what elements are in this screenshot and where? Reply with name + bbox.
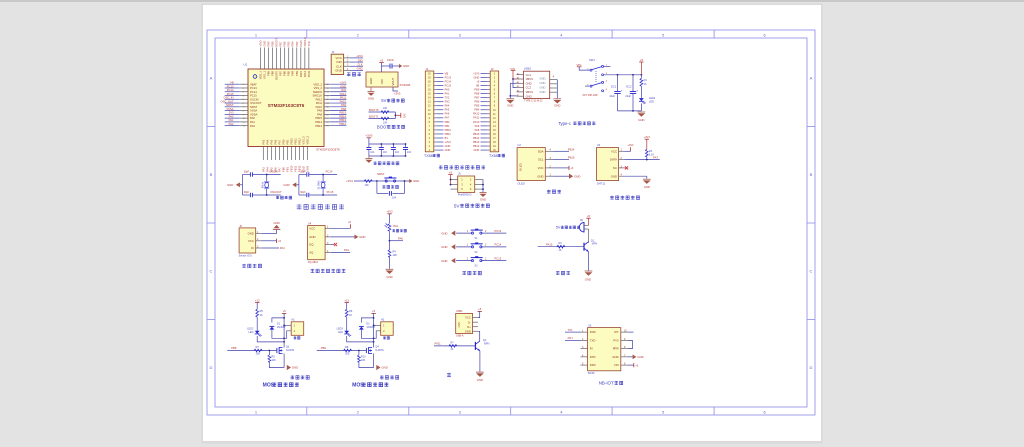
svg-text:PA6: PA6	[398, 236, 403, 240]
wire	[621, 331, 628, 333]
svg-text:LED1: LED1	[649, 96, 656, 100]
svg-text:OLED: OLED	[517, 181, 524, 185]
wire	[487, 121, 490, 123]
svg-text:PA11: PA11	[316, 101, 323, 105]
wire	[298, 175, 300, 196]
svg-text:GND: GND	[574, 174, 580, 178]
junction	[283, 337, 285, 339]
caption MCU minimum system	[297, 204, 302, 209]
wire	[394, 112, 396, 119]
wire	[437, 77, 443, 79]
wire	[354, 180, 409, 182]
svg-text:+12: +12	[255, 298, 260, 302]
wire	[487, 73, 490, 75]
svg-text:PB0: PB0	[445, 120, 450, 124]
svg-text:PC14: PC14	[326, 170, 333, 174]
wire	[487, 85, 490, 87]
junction	[380, 155, 382, 157]
svg-text:GND: GND	[507, 103, 513, 107]
svg-text:LED: LED	[338, 331, 343, 334]
svg-text:VCC: VCC	[538, 166, 544, 170]
svg-text:PA8: PA8	[475, 128, 480, 132]
svg-text:PC14: PC14	[227, 88, 234, 92]
junction	[450, 179, 452, 181]
wire	[288, 48, 290, 70]
svg-text:SDA: SDA	[538, 149, 544, 153]
wire	[225, 83, 240, 85]
wire	[330, 91, 346, 93]
wire	[437, 145, 443, 147]
svg-text:PA0: PA0	[250, 116, 255, 120]
ground	[638, 111, 646, 113]
svg-text:VB: VB	[476, 83, 480, 87]
svg-text:N-MOS: N-MOS	[286, 349, 295, 352]
wire	[284, 324, 287, 326]
wire	[481, 232, 506, 234]
svg-text:PB1: PB1	[285, 167, 289, 172]
wire	[268, 48, 270, 70]
wire	[487, 125, 490, 127]
wire	[374, 331, 377, 339]
sheet page shadow	[202, 4, 823, 444]
power +5	[371, 312, 375, 314]
wire	[239, 83, 248, 85]
svg-text:5V: 5V	[454, 203, 461, 208]
wire	[325, 252, 331, 254]
wire	[434, 113, 437, 115]
wire	[481, 109, 488, 111]
svg-text:VSSA: VSSA	[250, 109, 257, 113]
svg-text:PB10: PB10	[445, 128, 452, 132]
svg-text:+3V3: +3V3	[365, 134, 372, 138]
wire	[389, 214, 391, 223]
wire	[628, 364, 634, 366]
wire	[405, 144, 407, 147]
wire	[473, 317, 479, 319]
svg-text:VDD_2: VDD_2	[313, 82, 322, 86]
svg-text:PA9: PA9	[341, 103, 346, 107]
svg-text:GND: GND	[480, 198, 486, 202]
wire	[585, 85, 589, 87]
svg-text:PB7: PB7	[279, 70, 283, 75]
svg-text:10K: 10K	[365, 184, 370, 187]
wire	[344, 65, 350, 67]
wire	[487, 81, 490, 83]
wire	[437, 81, 443, 83]
wire	[487, 149, 490, 151]
svg-text:GND: GND	[359, 235, 365, 239]
wire	[377, 192, 389, 194]
svg-text:CLK: CLK	[357, 63, 362, 67]
power +5	[639, 61, 643, 63]
transistor Q1 NPN	[583, 243, 585, 251]
wire	[239, 98, 248, 100]
wire	[368, 144, 370, 147]
resistor R6 1K	[345, 309, 348, 317]
wire	[330, 102, 346, 104]
svg-text:104: 104	[395, 151, 400, 154]
svg-text:GND: GND	[368, 97, 374, 101]
caption crystal circuit	[276, 196, 279, 199]
IC U2 OLED	[517, 148, 545, 181]
wire	[324, 91, 330, 93]
wire	[282, 147, 284, 161]
wire	[324, 125, 330, 127]
wire	[632, 94, 634, 111]
caption reset circuit	[382, 185, 385, 188]
ground	[287, 365, 291, 370]
svg-text:C: C	[810, 269, 813, 274]
junction	[373, 337, 375, 339]
wire	[376, 324, 381, 326]
svg-text:PB12: PB12	[298, 138, 302, 145]
svg-text:VB: VB	[230, 81, 234, 85]
wire	[487, 137, 490, 139]
junction	[482, 188, 484, 190]
wire	[390, 240, 404, 242]
svg-text:LED: LED	[249, 331, 254, 334]
svg-text:PA5: PA5	[269, 139, 273, 144]
wire	[324, 102, 330, 104]
wire	[330, 113, 346, 115]
wire	[434, 129, 437, 131]
svg-text:PB7: PB7	[474, 96, 479, 100]
wire	[628, 356, 633, 358]
junction	[404, 180, 406, 182]
wire	[262, 147, 264, 161]
svg-text:STM32F103C8T6: STM32F103C8T6	[268, 103, 305, 108]
wire	[317, 350, 367, 352]
wire	[239, 110, 248, 112]
svg-text:PB9: PB9	[321, 346, 327, 350]
wire	[456, 232, 472, 234]
wire	[434, 141, 437, 143]
svg-text:TXD: TXD	[590, 338, 596, 342]
svg-text:PA6: PA6	[273, 139, 277, 144]
wire	[344, 69, 350, 71]
svg-text:GND: GND	[554, 103, 560, 107]
wire	[361, 318, 373, 323]
svg-text:GND: GND	[526, 94, 532, 98]
svg-text:EC1: EC1	[611, 84, 617, 88]
svg-text:PB6: PB6	[283, 70, 287, 75]
svg-text:PB4: PB4	[474, 108, 479, 112]
junction	[376, 180, 378, 182]
wire	[646, 139, 648, 149]
svg-text:PA11: PA11	[435, 342, 442, 346]
svg-text:PB3: PB3	[295, 41, 299, 46]
svg-text:GND: GND	[612, 355, 618, 359]
svg-text:PinHDR2X3: PinHDR2X3	[458, 194, 472, 197]
wire	[330, 110, 346, 112]
wire	[437, 125, 443, 127]
ground	[569, 174, 573, 179]
svg-text:30pF: 30pF	[300, 191, 306, 194]
wire	[481, 89, 488, 91]
svg-text:OSCIN: OSCIN	[250, 97, 259, 101]
wire	[487, 113, 490, 115]
svg-text:PB11: PB11	[445, 132, 452, 136]
junction	[283, 325, 285, 327]
svg-text:GND: GND	[309, 235, 315, 239]
wire	[239, 95, 248, 97]
svg-text:104: 104	[407, 151, 412, 154]
wire	[619, 175, 625, 177]
wire	[481, 105, 488, 107]
svg-text:PRR: PRR	[613, 347, 619, 351]
wire	[283, 313, 285, 342]
wire	[284, 48, 286, 70]
svg-text:PA1: PA1	[250, 120, 255, 124]
wire	[640, 103, 642, 111]
svg-text:PV3: PV3	[613, 338, 619, 342]
svg-text:PB4: PB4	[291, 41, 295, 46]
IC U5 NB-IoT BC26	[588, 328, 621, 371]
wire	[350, 65, 363, 67]
svg-text:GND: GND	[540, 77, 546, 81]
power +5	[379, 62, 383, 64]
svg-text:30pF: 30pF	[244, 191, 250, 194]
wire	[272, 48, 274, 70]
wire	[624, 150, 630, 152]
svg-text:PA8: PA8	[317, 112, 322, 116]
wire	[295, 147, 297, 161]
wire	[389, 257, 391, 269]
svg-text:TX1: TX1	[568, 328, 573, 332]
svg-text:PB6: PB6	[474, 100, 479, 104]
wire	[276, 229, 278, 233]
junction	[389, 240, 391, 242]
wire	[325, 244, 331, 246]
wire	[550, 91, 558, 93]
wire	[389, 231, 391, 250]
wire	[225, 91, 240, 93]
svg-text:Type-c: Type-c	[558, 121, 571, 126]
svg-text:30pF: 30pF	[244, 171, 250, 174]
wire	[437, 85, 443, 87]
junction	[393, 155, 395, 157]
svg-text:PA2: PA2	[250, 124, 255, 128]
wire	[437, 133, 443, 135]
capacitor 30pF	[306, 193, 308, 197]
svg-text:U1: U1	[244, 63, 248, 67]
junction	[283, 341, 285, 343]
svg-text:+3V3: +3V3	[356, 54, 363, 58]
wire	[269, 362, 284, 368]
svg-text:PA3: PA3	[344, 248, 349, 252]
svg-text:+3V3: +3V3	[306, 165, 310, 172]
svg-text:NRST: NRST	[377, 172, 385, 176]
svg-text:DRX: DRX	[590, 363, 596, 367]
svg-text:PB12: PB12	[339, 122, 346, 126]
svg-text:GND: GND	[441, 231, 447, 235]
svg-text:NPN: NPN	[592, 242, 598, 246]
wire	[550, 87, 558, 89]
wire	[451, 188, 458, 190]
wire	[473, 321, 479, 323]
wire	[322, 175, 324, 182]
svg-text:GND: GND	[441, 245, 447, 249]
wire	[473, 326, 479, 328]
svg-text:PB14: PB14	[568, 147, 575, 151]
wire	[437, 105, 443, 107]
wire	[556, 80, 558, 99]
svg-text:N-MOS: N-MOS	[375, 349, 384, 352]
svg-text:PB15: PB15	[473, 132, 480, 136]
power +3V3	[568, 166, 570, 170]
svg-text:PC15: PC15	[227, 92, 234, 96]
wire	[370, 87, 372, 92]
wire	[621, 356, 628, 358]
svg-text:1N4007: 1N4007	[366, 326, 375, 329]
wire	[239, 102, 248, 104]
svg-text:BOOT0: BOOT0	[275, 70, 279, 79]
wire	[324, 110, 330, 112]
svg-text:SW1: SW1	[589, 58, 595, 62]
svg-text:PA3: PA3	[261, 139, 265, 144]
wire	[487, 89, 490, 91]
svg-text:PA12: PA12	[473, 112, 480, 116]
wire	[239, 125, 248, 127]
wire	[307, 147, 309, 161]
svg-text:TCK: TCK	[307, 41, 311, 46]
wire	[373, 342, 375, 348]
wire	[437, 89, 443, 91]
wire	[368, 138, 370, 144]
svg-text:+3V3: +3V3	[259, 40, 263, 47]
svg-text:PB9: PB9	[474, 88, 479, 92]
wire	[437, 141, 443, 143]
wire	[487, 145, 490, 147]
wire	[243, 194, 250, 196]
wire	[481, 125, 488, 127]
svg-text:PA4: PA4	[280, 246, 285, 250]
wire	[272, 330, 284, 339]
wire	[481, 137, 488, 139]
svg-text:GND: GND	[644, 185, 650, 189]
wire	[581, 348, 588, 350]
svg-text:PB8: PB8	[271, 41, 275, 46]
wire	[565, 331, 581, 333]
svg-text:C: C	[210, 269, 213, 274]
svg-text:GND: GND	[585, 277, 591, 281]
wire	[369, 155, 406, 157]
wire	[296, 184, 299, 186]
svg-text:PA15: PA15	[299, 70, 303, 77]
svg-text:VSS_3: VSS_3	[302, 136, 306, 145]
svg-text:DIO: DIO	[341, 88, 346, 92]
wire	[510, 82, 516, 84]
wire	[545, 175, 553, 177]
wire	[331, 236, 355, 238]
wire	[283, 354, 285, 368]
wire	[434, 77, 437, 79]
svg-text:3V3: 3V3	[403, 114, 406, 119]
sheet page	[203, 5, 821, 441]
svg-text:PA0: PA0	[229, 114, 234, 118]
svg-text:PB15: PB15	[568, 156, 575, 160]
wire	[291, 147, 293, 161]
svg-text:DIO: DIO	[358, 58, 363, 62]
svg-text:PB5: PB5	[474, 104, 479, 108]
connector H1	[291, 322, 304, 336]
ground	[585, 270, 593, 272]
wire	[309, 174, 337, 176]
wire	[376, 181, 378, 193]
wire	[456, 260, 472, 262]
wire	[392, 144, 394, 147]
wire	[481, 85, 488, 87]
svg-text:GND: GND	[283, 183, 289, 187]
wire	[434, 101, 437, 103]
wire	[239, 113, 248, 115]
wire	[628, 340, 632, 348]
svg-text:VDD_1: VDD_1	[259, 70, 263, 79]
wire	[581, 364, 588, 366]
wire	[481, 133, 488, 135]
svg-text:Q2: Q2	[483, 338, 487, 342]
svg-text:10K: 10K	[383, 107, 388, 110]
wire	[330, 106, 346, 108]
wire	[262, 240, 277, 242]
wire	[617, 75, 619, 92]
svg-text:KFT DIP-4S8: KFT DIP-4S8	[583, 94, 598, 97]
svg-text:CC2: CC2	[526, 86, 532, 90]
caption output control	[291, 375, 294, 379]
wire	[437, 129, 443, 131]
wire	[434, 117, 437, 119]
svg-text:PB9: PB9	[267, 70, 271, 75]
junction	[395, 114, 397, 116]
svg-text:1N4007: 1N4007	[277, 326, 286, 329]
wire	[517, 87, 524, 89]
svg-text:GND: GND	[474, 148, 480, 152]
wire	[331, 227, 351, 229]
svg-text:+12: +12	[344, 298, 349, 302]
wire	[283, 342, 285, 348]
wire	[324, 87, 330, 89]
wire	[347, 336, 374, 342]
wire	[565, 339, 581, 341]
svg-text:+5: +5	[640, 58, 644, 62]
wire	[405, 150, 407, 156]
wire	[487, 129, 490, 131]
caption download port	[347, 72, 351, 76]
wire	[278, 147, 280, 161]
wire	[284, 331, 287, 339]
wire	[437, 113, 443, 115]
wire	[225, 106, 240, 108]
power +12	[345, 302, 349, 304]
ground	[409, 179, 412, 183]
svg-text:BOOT0: BOOT0	[275, 37, 279, 46]
wire	[324, 95, 330, 97]
svg-text:PC14: PC14	[250, 90, 257, 94]
svg-text:RG1: RG1	[393, 225, 399, 228]
wire	[331, 244, 334, 246]
wire	[581, 339, 588, 341]
wire	[437, 117, 443, 119]
wire	[299, 147, 301, 161]
svg-text:PB13: PB13	[339, 118, 346, 122]
svg-text:SCL: SCL	[538, 158, 544, 162]
wire	[437, 93, 443, 95]
wire	[517, 82, 524, 84]
svg-text:U2: U2	[517, 143, 521, 147]
LED LED2	[255, 331, 260, 334]
connector J2 header	[490, 71, 499, 152]
svg-text:1K: 1K	[644, 83, 647, 86]
